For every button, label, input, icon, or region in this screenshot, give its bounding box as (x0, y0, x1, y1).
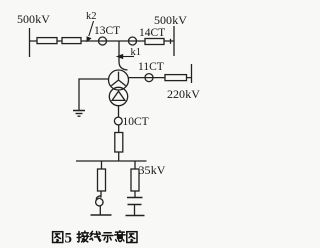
caption char: 图 (53, 232, 63, 243)
wire: box to capacitor (134, 191, 136, 197)
wire: box to coil (100, 191, 102, 198)
svg-text:14CT: 14CT (139, 27, 165, 39)
capacitor C1 plate 1 (127, 197, 143, 199)
caption: 图5 接线示意图 (53, 231, 137, 247)
left feeder terminal bar (91, 214, 112, 216)
caption char: 图 (127, 232, 137, 243)
svg-text:11CT: 11CT (138, 61, 164, 73)
transformer T1 LV winding (delta) (109, 87, 127, 105)
500kV left busbar (29, 28, 31, 57)
svg-text:k2: k2 (86, 11, 97, 22)
wire: coil to bottom bar (99, 206, 101, 215)
wire: 10CT to box (118, 125, 120, 133)
right feeder terminal bar (126, 215, 145, 217)
arc-suppression coil symbol (96, 196, 103, 206)
wire: top run from left busbar to right busbar (30, 40, 175, 42)
breaker box B4 (220kV side) (165, 75, 187, 81)
tick on wire near right busbar (170, 39, 172, 44)
CT 14CT circle (129, 37, 137, 45)
wire: transformer to 220kV busbar (128, 77, 191, 79)
CT 10CT circle (114, 117, 122, 125)
wire: neutral from transformer to ground (79, 79, 109, 110)
breaker box B7 (right feeder) (131, 169, 139, 191)
capacitor C1 plate 2 (128, 204, 142, 206)
wire: box to 35kV busbar (118, 152, 120, 161)
wire: transformer down to 10CT (118, 106, 120, 118)
ground symbol (73, 110, 85, 112)
220kV busbar (191, 64, 193, 83)
wire: left feeder drop (101, 161, 103, 169)
transformer T1 HV winding (wye) (109, 70, 129, 90)
caption char: 示 (102, 233, 113, 242)
35kV busbar (76, 160, 147, 162)
svg-text:220kV: 220kV (167, 87, 200, 101)
svg-text:500kV: 500kV (17, 12, 50, 26)
CT 13CT circle (99, 37, 107, 45)
fault arrow k1 (116, 54, 134, 59)
breaker box B1 (37, 38, 57, 44)
caption char: 接 (77, 231, 88, 242)
breaker box B6 (left feeder) (98, 169, 106, 191)
svg-text:35kV: 35kV (139, 163, 166, 177)
svg-text:k1: k1 (131, 47, 142, 58)
svg-text:13CT: 13CT (94, 25, 120, 37)
500kV right busbar (173, 26, 175, 56)
breaker box B5 (35kV feed) (115, 133, 123, 153)
breaker box B3 (14CT side) (145, 39, 164, 45)
caption char: 意 (115, 231, 125, 242)
wire: capacitor to bottom bar (134, 205, 136, 216)
wire: right feeder drop (134, 161, 136, 169)
breaker box B2 (62, 38, 81, 44)
wire: junction drop to transformer (119, 41, 128, 70)
CT 11CT circle (145, 74, 153, 82)
svg-text:5: 5 (65, 231, 73, 247)
svg-text:500kV: 500kV (154, 13, 187, 27)
fault arrow k2 (87, 21, 94, 42)
svg-text:10CT: 10CT (123, 116, 149, 128)
caption char: 线 (90, 231, 101, 241)
